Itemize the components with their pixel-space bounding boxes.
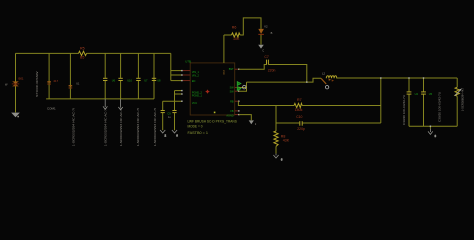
svg-text:U4: U4	[415, 92, 419, 96]
pin AGND	[226, 114, 239, 118]
capacitor branch C8	[174, 91, 176, 111]
svg-text:BST: BST	[229, 68, 234, 71]
polarized cap mark CA1	[47, 81, 51, 84]
wire BST to C7	[239, 65, 266, 70]
pin PGND_1	[181, 93, 202, 97]
resistor R7	[294, 103, 302, 107]
svg-text:220n: 220n	[268, 68, 276, 72]
svg-text:COM1: COM1	[47, 107, 56, 111]
svg-text:C: C	[262, 49, 264, 52]
ground below U10 branch	[118, 99, 122, 110]
svg-text:C39/20 100-63/42-7U: C39/20 100-63/42-7U	[402, 95, 406, 125]
svg-text:U7: U7	[144, 79, 148, 83]
svg-text:VCC: VCC	[192, 102, 197, 105]
ground V2	[258, 45, 264, 53]
pin EN	[181, 80, 195, 83]
ground C8	[172, 130, 179, 137]
resistor R8	[274, 131, 290, 146]
capacitor branch C9	[162, 101, 164, 110]
wire C7 to SW node	[269, 65, 307, 83]
wire R6 left lead	[224, 34, 232, 36]
svg-text:10K: 10K	[233, 37, 240, 41]
wire PGND_2 stub	[175, 90, 183, 92]
svg-text:180k: 180k	[295, 108, 303, 112]
svg-text:STOCK R/SSW: STOCK R/SSW	[35, 71, 39, 97]
svg-text:220p: 220p	[297, 127, 305, 131]
svg-text:R5: R5	[80, 47, 85, 51]
wire V2 to ground	[260, 35, 262, 45]
wire RB jog	[238, 101, 242, 105]
resistor R9 trimmer	[455, 87, 462, 96]
junction dot U4 top	[408, 77, 409, 78]
svg-text:R6: R6	[232, 26, 237, 30]
svg-text:B5: B5	[80, 56, 84, 60]
ground output	[428, 129, 437, 138]
svg-text:1-SCR302/294 I4C AC-7I: 1-SCR302/294 I4C AC-7I	[72, 108, 76, 147]
diode V2	[258, 25, 272, 35]
svg-text:FB: FB	[230, 110, 234, 113]
op-amp regulator U7B box	[190, 63, 235, 115]
ground R8	[273, 154, 283, 162]
junction dot SW-C7	[306, 81, 307, 82]
svg-text:U8: U8	[157, 79, 161, 83]
junction dot bottom-right	[430, 126, 431, 127]
svg-text:R7: R7	[297, 98, 302, 102]
capacitor U5 branch	[423, 78, 425, 92]
pin VDD right top	[229, 68, 240, 71]
wire GND stub bottom-right	[429, 126, 431, 129]
wire VCC link	[163, 100, 182, 102]
svg-text:SW: SW	[230, 87, 235, 90]
svg-text:1-SCR302/294 I4C AC-7I: 1-SCR302/294 I4C AC-7I	[136, 108, 140, 147]
wire VOUT tap down	[380, 78, 382, 123]
diode W (TVS) on input	[5, 76, 24, 86]
junction dot U5 top	[423, 77, 424, 78]
wire R7 to VOUT	[302, 105, 381, 107]
wire SW run	[247, 81, 307, 83]
wire FB run	[239, 105, 294, 107]
capacitor U7 branch	[137, 53, 139, 78]
wire output rail	[337, 77, 458, 79]
wire R6 to V2 loop	[240, 18, 261, 35]
svg-text:B01: B01	[19, 76, 24, 80]
wire VIN_2 tap	[171, 74, 182, 76]
svg-text:U10: U10	[127, 79, 132, 83]
svg-text:1-SCR308/294 4K7: 1-SCR308/294 4K7	[460, 87, 464, 111]
capacitor U4 branch	[408, 78, 410, 92]
wire R8 to ground	[275, 146, 277, 153]
svg-text:C10: C10	[296, 115, 302, 119]
svg-text:L2: L2	[322, 71, 326, 75]
wire AGND	[239, 115, 252, 121]
ground AGND	[249, 120, 257, 126]
wire SW step to diode	[307, 78, 321, 82]
pin VIN_2	[181, 74, 199, 77]
svg-text:C9: C9	[167, 112, 171, 116]
wire FB node vertical	[275, 106, 277, 132]
diode D2 catch	[321, 78, 334, 84]
svg-text:C39/20 100-63/42-7U: C39/20 100-63/42-7U	[438, 92, 442, 122]
wire bottom-right rail	[409, 125, 457, 127]
svg-text:BST: BST	[223, 69, 226, 74]
wire rail corner down to VIN pins	[170, 53, 172, 80]
wire R9 branch	[456, 78, 458, 87]
pin VCC	[181, 101, 197, 106]
pin SW b	[230, 90, 240, 93]
svg-text:AGND: AGND	[226, 115, 233, 118]
capacitor U6 branch	[104, 53, 106, 78]
svg-text:VIN_2: VIN_2	[192, 74, 200, 77]
svg-text:EN: EN	[192, 80, 196, 83]
port arrow SW b	[237, 87, 241, 91]
capacitor U8 branch	[153, 53, 155, 99]
port arrow SW a	[237, 82, 241, 86]
svg-text:B: B	[271, 31, 273, 35]
wire R6 branch vertical	[223, 35, 225, 63]
resistor R6	[232, 33, 241, 37]
svg-text:1-SCR302/294 I4C AC-7I: 1-SCR302/294 I4C AC-7I	[103, 108, 107, 147]
svg-text:FASTB0 = 1: FASTB0 = 1	[188, 131, 209, 135]
capacitor branch CA1	[48, 53, 50, 99]
svg-text:PGND_1: PGND_1	[192, 95, 203, 98]
svg-text:43K: 43K	[283, 139, 290, 143]
wire VIN_1 tap	[171, 70, 182, 72]
ground input	[11, 113, 20, 118]
svg-text:1-SCR302/294 I4C AC-7I: 1-SCR302/294 I4C AC-7I	[153, 108, 157, 147]
wire input top rail left	[16, 52, 79, 54]
svg-text:MODE = 0: MODE = 0	[188, 125, 203, 129]
resistor R5	[79, 51, 87, 55]
pin RB	[230, 100, 239, 103]
junction circle SW	[243, 86, 246, 89]
svg-text:V2: V2	[264, 25, 268, 29]
capacitor C7	[264, 55, 275, 72]
svg-text:SW: SW	[230, 90, 235, 93]
svg-text:C7: C7	[264, 55, 268, 59]
svg-text:217: 217	[54, 79, 59, 83]
svg-text:RB: RB	[230, 100, 234, 103]
wire C10 run	[303, 122, 381, 124]
junction dot VOUT tap	[380, 77, 381, 78]
capacitor C10	[276, 115, 305, 131]
svg-text:1-SCR302/294 I4C AC-7I: 1-SCR302/294 I4C AC-7I	[119, 108, 123, 147]
ground below U6 branch	[103, 99, 107, 109]
cursor sparkle inside U7B	[205, 89, 210, 93]
wire input top rail right of R5	[87, 52, 171, 54]
svg-text:U7B: U7B	[185, 59, 191, 63]
wire SW pins join	[239, 88, 247, 92]
polarized cap mark CA2	[54, 79, 81, 89]
pin FB	[230, 110, 239, 113]
pin VIN_1	[181, 70, 199, 74]
yellow dot at box corner	[214, 112, 216, 114]
inductor L2	[322, 71, 337, 78]
junction circle D2	[325, 86, 328, 89]
svg-text:U5: U5	[429, 92, 433, 96]
wire EN tap	[171, 80, 182, 82]
wire SW vertical stub	[246, 82, 248, 87]
pin PGND_2	[181, 90, 202, 95]
ground C9	[160, 130, 167, 137]
svg-text:LWF BRUSH SC-D PFXG_TRANS: LWF BRUSH SC-D PFXG_TRANS	[188, 119, 237, 123]
capacitor U10 branch	[120, 53, 122, 78]
wire PGND_1 stub	[175, 93, 183, 95]
capacitor branch CA2	[69, 53, 71, 99]
wire bottom-left rail	[46, 98, 154, 100]
pin SW a	[230, 87, 240, 90]
wire input diode branch	[15, 53, 17, 112]
svg-text:U6: U6	[112, 79, 116, 83]
